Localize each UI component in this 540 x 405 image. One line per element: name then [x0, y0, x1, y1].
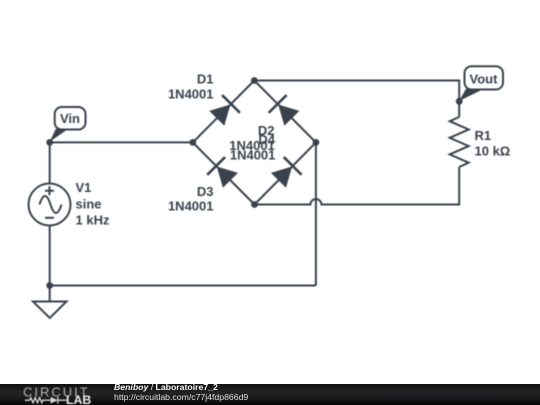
- wire Vin node to bridge left node: [50, 141, 193, 143]
- svg-text:D1: D1: [197, 72, 214, 87]
- svg-text:1N4001: 1N4001: [230, 147, 276, 162]
- svg-text:1 kHz: 1 kHz: [76, 213, 110, 228]
- voltage source V1: [29, 184, 71, 226]
- svg-text:1N4001: 1N4001: [168, 86, 214, 101]
- resistor R1: [450, 117, 469, 167]
- node Vout label flag: [459, 66, 503, 101]
- svg-text:10 kΩ: 10 kΩ: [475, 144, 511, 159]
- CircuitLab logo: [0, 384, 110, 405]
- svg-text:R1: R1: [475, 128, 492, 143]
- node bridge top dot: [251, 77, 258, 84]
- diode D3: [207, 157, 239, 189]
- wire bridge edge bottom-right: [255, 142, 316, 204]
- wire bridge bottom node to R1 bottom with hop over vertical wire: [255, 167, 460, 205]
- wire bridge edge top-right: [254, 81, 316, 143]
- svg-text:LAB: LAB: [66, 393, 91, 405]
- node bridge bottom dot: [251, 201, 258, 208]
- diode D2: [269, 95, 301, 127]
- wire ground stub: [49, 286, 51, 302]
- wire bridge edge top-left: [193, 81, 255, 143]
- wire Vin node down to V1 top: [49, 142, 51, 183]
- wire bridge right node down to bottom wire: [315, 142, 317, 285]
- wire ground node to bottom-right corner: [50, 285, 316, 287]
- node bridge left dot: [189, 139, 196, 146]
- diode D4: [269, 157, 301, 189]
- svg-text:Vout: Vout: [470, 71, 499, 86]
- svg-text:sine: sine: [76, 196, 102, 211]
- svg-text:V1: V1: [76, 180, 92, 195]
- node Vin label flag: [50, 107, 86, 142]
- svg-text:Vin: Vin: [60, 111, 80, 126]
- footer attribution text: [114, 382, 248, 402]
- wire bridge edge bottom-left: [193, 142, 255, 204]
- footer bar: [0, 384, 540, 405]
- ground: [33, 302, 67, 319]
- wire V1 bottom to ground node: [49, 226, 51, 286]
- wire bridge top node to top-right corner down to R1 top: [254, 81, 459, 118]
- svg-text:D3: D3: [197, 184, 214, 199]
- svg-text:D4: D4: [258, 132, 275, 147]
- node bridge right dot: [313, 139, 320, 146]
- diode D1: [208, 95, 240, 127]
- node Vout junction dot: [456, 98, 463, 105]
- node ground junction dot: [46, 282, 53, 289]
- node Vin junction dot: [46, 139, 53, 146]
- svg-text:1N4001: 1N4001: [168, 199, 214, 214]
